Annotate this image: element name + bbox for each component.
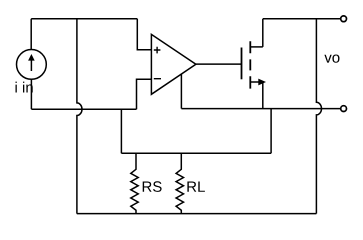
wire bottom bus bbox=[77, 213, 317, 215]
wire right horizontal to output terminal bbox=[181, 108, 340, 110]
wire resistor bus bbox=[121, 152, 271, 154]
transistor M1 channel dashes bbox=[249, 41, 251, 88]
resistor RS bbox=[131, 153, 138, 213]
wire drain vertical bbox=[262, 19, 264, 47]
wire noninverting input drop bbox=[137, 19, 151, 50]
label i in bbox=[16, 82, 33, 93]
label RS bbox=[143, 181, 162, 192]
wire right tall vertical with hop bbox=[316, 19, 321, 214]
label vo bbox=[324, 55, 339, 63]
transistor M1 drain tab bbox=[250, 46, 262, 48]
op-amp minus sign bbox=[154, 78, 161, 80]
wire left feedback horizontal bbox=[31, 108, 136, 110]
resistor RL bbox=[176, 153, 183, 213]
wire top-right horizontal bbox=[263, 18, 341, 20]
wire op-amp output to gate bbox=[196, 63, 242, 65]
transistor M1 gate bar bbox=[241, 48, 243, 80]
wire right bus drop bbox=[270, 109, 272, 154]
current source I1 bbox=[17, 50, 47, 80]
wire current source top lead bbox=[30, 19, 32, 50]
label RL bbox=[187, 182, 205, 192]
wire top-left horizontal bbox=[31, 18, 137, 20]
wire source vertical bbox=[262, 82, 264, 109]
op-amp U1 bbox=[151, 34, 196, 94]
transistor M1 source tab bbox=[250, 81, 262, 83]
wire current source bottom lead bbox=[30, 79, 32, 109]
wire inverting input riser bbox=[137, 79, 152, 109]
transistor M1 source arrow bbox=[258, 79, 266, 86]
op-amp plus sign bbox=[154, 47, 161, 54]
wire left tall vertical with hop bbox=[77, 19, 82, 214]
terminal vo- bbox=[341, 106, 347, 112]
terminal vo+ bbox=[341, 16, 347, 22]
wire feedback from op-amp bbox=[180, 74, 182, 109]
wire left bus drop bbox=[120, 109, 122, 153]
